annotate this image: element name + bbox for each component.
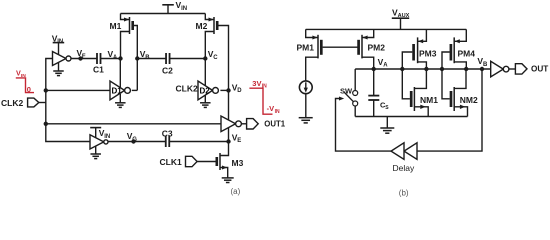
svg-text:IN: IN bbox=[104, 134, 110, 140]
svg-text:B: B bbox=[483, 62, 488, 68]
svg-text:A: A bbox=[113, 55, 118, 61]
svg-text:OUT1: OUT1 bbox=[264, 120, 285, 129]
svg-text:PM3: PM3 bbox=[419, 49, 437, 59]
svg-text:M1: M1 bbox=[110, 21, 122, 31]
svg-text:G: G bbox=[132, 137, 137, 143]
svg-text:C1: C1 bbox=[93, 64, 104, 74]
svg-text:(a): (a) bbox=[231, 187, 241, 196]
svg-text:M2: M2 bbox=[196, 21, 208, 31]
svg-text:E: E bbox=[237, 138, 241, 144]
svg-text:A: A bbox=[383, 63, 388, 69]
svg-text:0: 0 bbox=[27, 85, 31, 94]
svg-text:IN: IN bbox=[57, 39, 63, 45]
svg-text:C2: C2 bbox=[162, 65, 173, 75]
svg-text:(b): (b) bbox=[399, 189, 409, 198]
svg-text:M3: M3 bbox=[232, 158, 244, 168]
svg-text:Delay: Delay bbox=[393, 163, 415, 173]
svg-text:-V: -V bbox=[267, 104, 275, 113]
svg-text:NM1: NM1 bbox=[420, 95, 438, 105]
svg-text:IN: IN bbox=[181, 6, 187, 12]
svg-text:PM4: PM4 bbox=[458, 49, 476, 59]
svg-text:F: F bbox=[82, 54, 86, 60]
svg-text:CLK1: CLK1 bbox=[160, 157, 182, 167]
svg-text:C3: C3 bbox=[162, 129, 173, 139]
svg-text:CLK2: CLK2 bbox=[1, 98, 23, 108]
svg-text:C: C bbox=[213, 55, 218, 61]
svg-text:SW: SW bbox=[340, 86, 353, 95]
svg-text:CLK2: CLK2 bbox=[176, 84, 198, 94]
svg-text:D1: D1 bbox=[112, 86, 123, 95]
svg-text:AUX: AUX bbox=[398, 13, 410, 19]
svg-text:D: D bbox=[237, 88, 242, 94]
svg-text:OUT: OUT bbox=[531, 65, 548, 74]
svg-text:PM2: PM2 bbox=[368, 42, 386, 52]
svg-text:IN: IN bbox=[275, 109, 280, 115]
svg-text:D2: D2 bbox=[200, 86, 211, 95]
svg-text:3V: 3V bbox=[252, 79, 261, 88]
svg-text:NM2: NM2 bbox=[460, 95, 478, 105]
svg-text:PM1: PM1 bbox=[297, 42, 315, 52]
